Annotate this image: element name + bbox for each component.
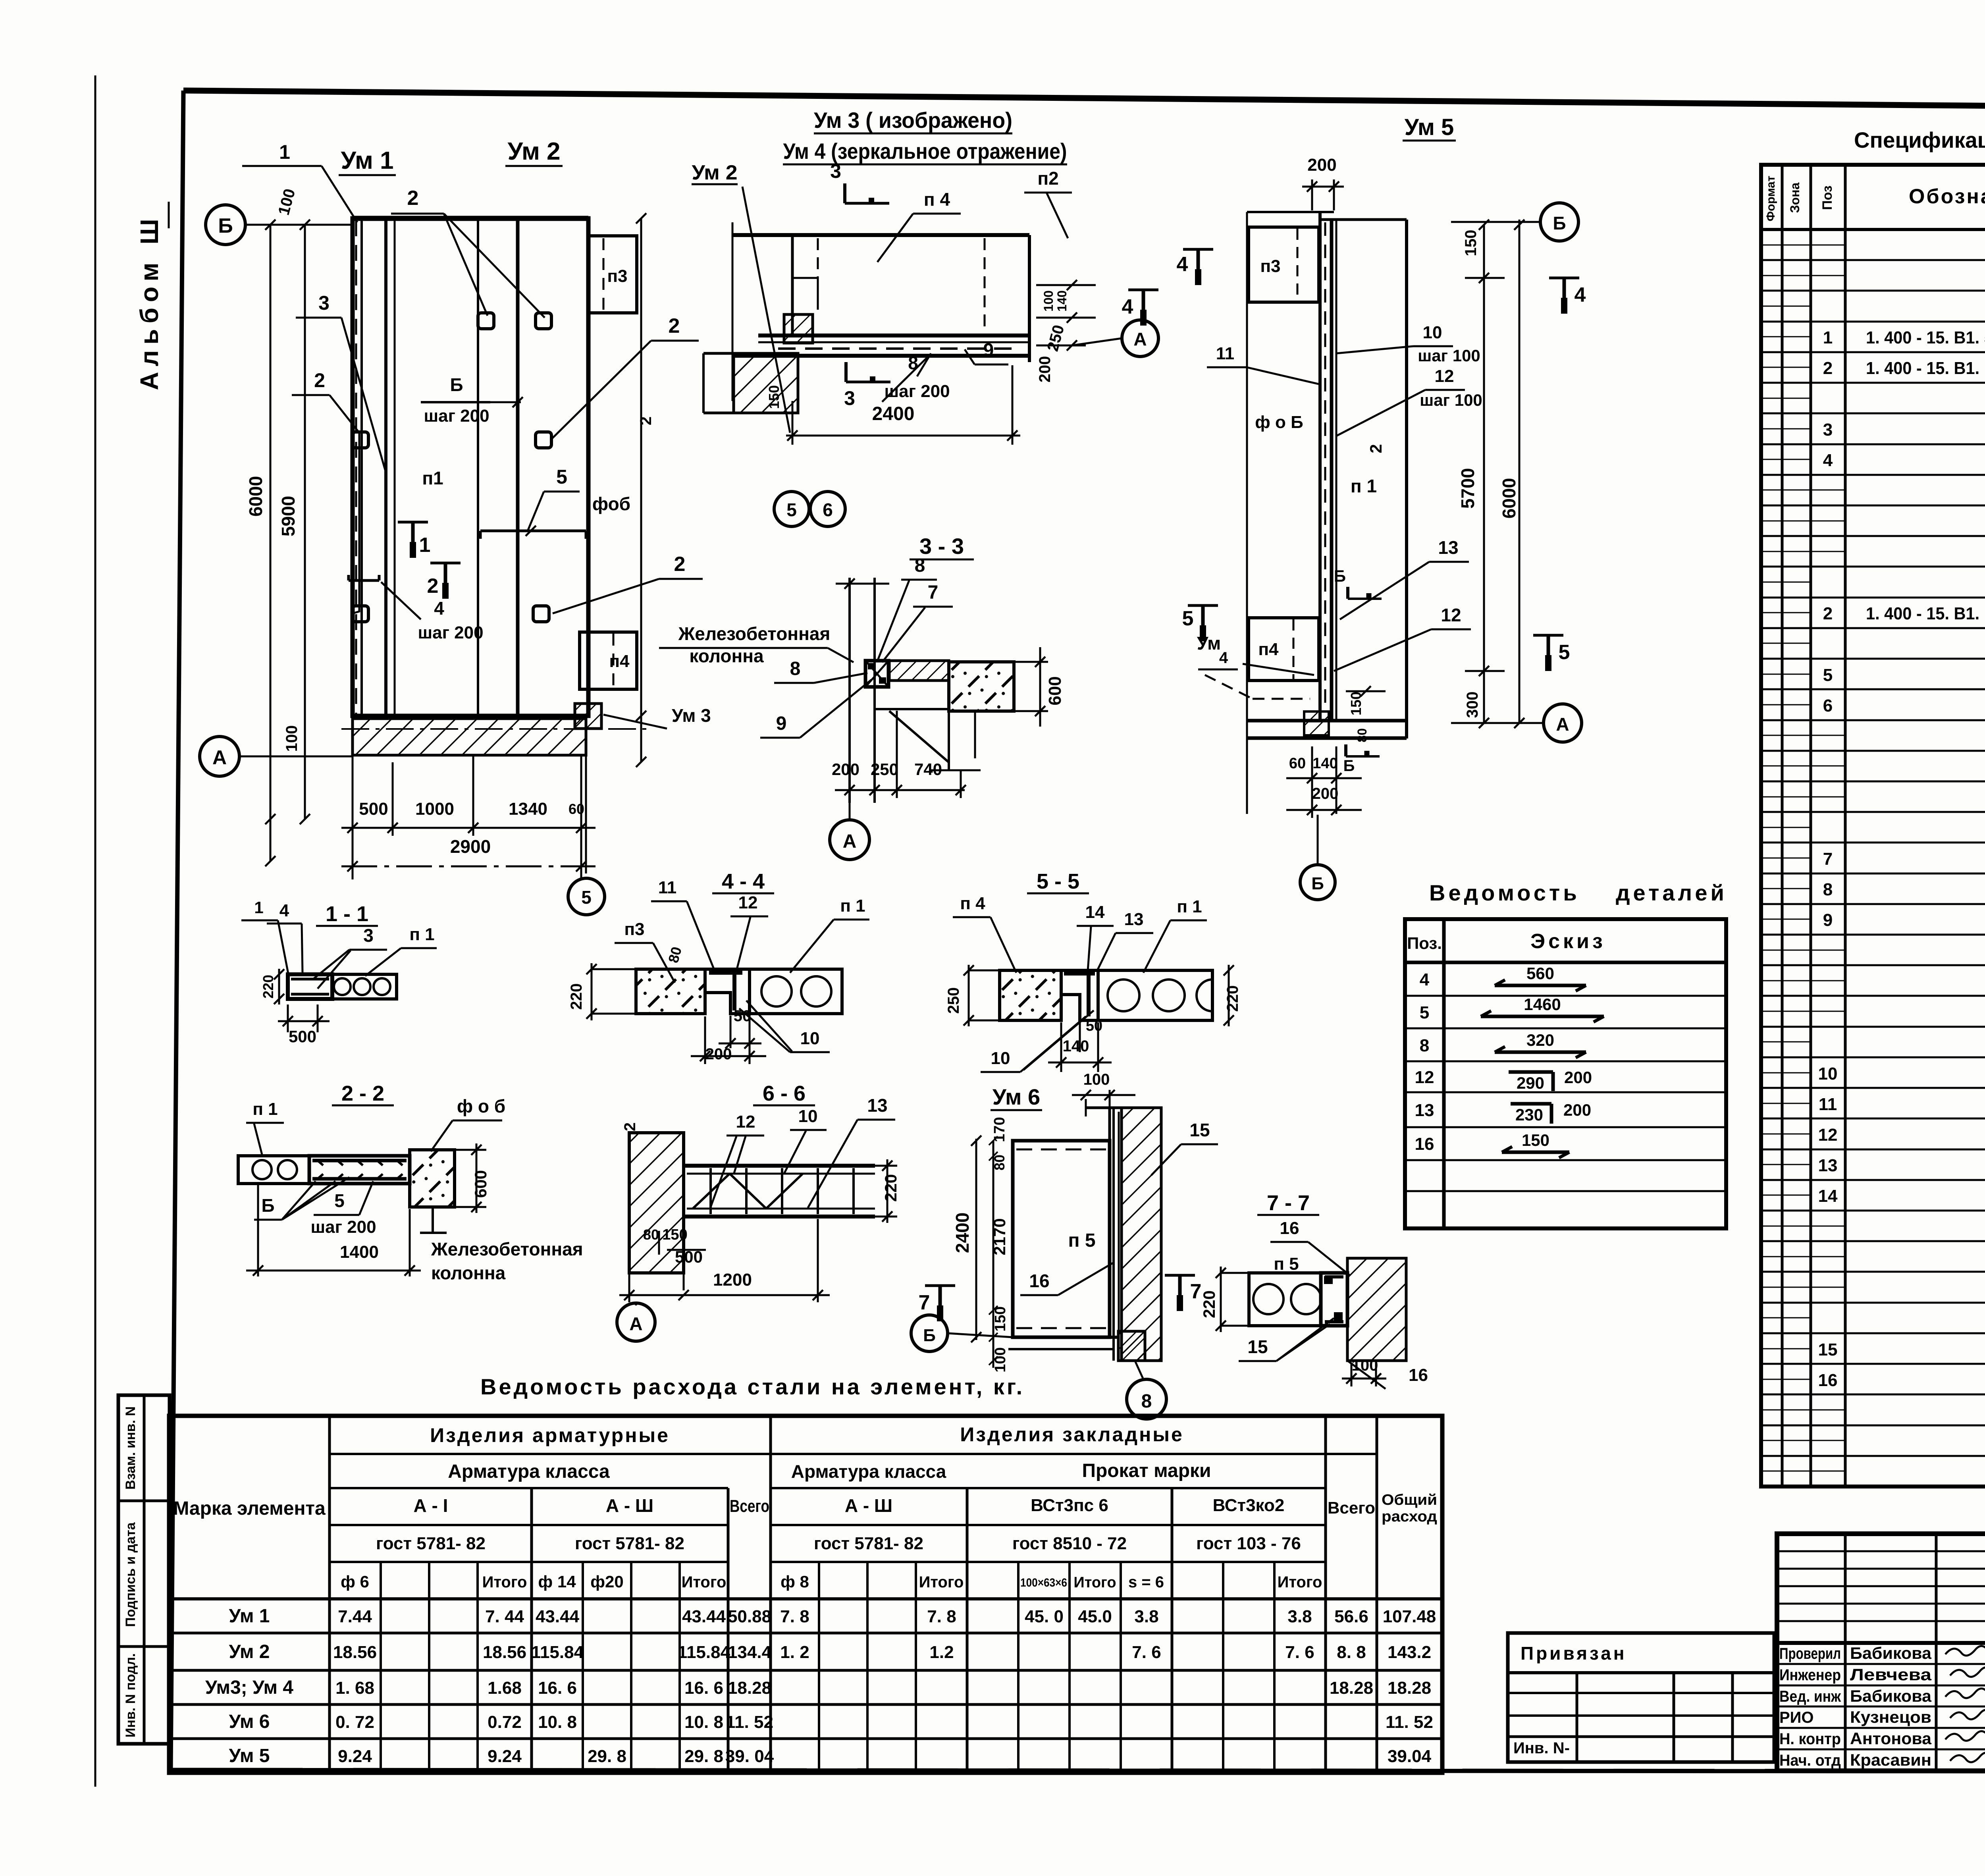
svg-text:10. 8: 10. 8 — [538, 1712, 577, 1732]
svg-text:п 1: п 1 — [1351, 476, 1377, 496]
svg-text:Инв. N подл.: Инв. N подл. — [123, 1653, 138, 1737]
svg-text:п2: п2 — [1037, 168, 1058, 189]
svg-text:5: 5 — [1420, 1003, 1429, 1022]
svg-text:Прокат марки: Прокат марки — [1082, 1460, 1211, 1481]
svg-text:43.44: 43.44 — [536, 1607, 580, 1626]
svg-text:10: 10 — [800, 1029, 820, 1048]
svg-text:Ум 5: Ум 5 — [229, 1745, 270, 1766]
svg-text:1: 1 — [1823, 328, 1833, 347]
svg-text:Итого: Итого — [1073, 1574, 1116, 1591]
svg-text:ф 14: ф 14 — [538, 1572, 576, 1591]
svg-text:Арматура класса: Арматура класса — [448, 1461, 610, 1482]
svg-text:Ум 5: Ум 5 — [1405, 114, 1454, 140]
svg-text:18.28: 18.28 — [728, 1678, 771, 1698]
svg-text:4: 4 — [1575, 283, 1586, 307]
svg-text:250: 250 — [945, 987, 962, 1014]
svg-text:2 - 2: 2 - 2 — [341, 1082, 384, 1105]
svg-text:6000: 6000 — [1499, 478, 1519, 519]
svg-text:РИО: РИО — [1779, 1709, 1814, 1726]
svg-text:140: 140 — [1312, 755, 1337, 772]
svg-text:45. 0: 45. 0 — [1025, 1607, 1064, 1626]
svg-text:11: 11 — [1819, 1095, 1837, 1114]
svg-text:200: 200 — [1036, 356, 1054, 383]
svg-text:9.24: 9.24 — [488, 1747, 522, 1766]
svg-text:140: 140 — [1063, 1037, 1089, 1055]
svg-text:11. 52: 11. 52 — [726, 1712, 773, 1732]
svg-text:2: 2 — [1823, 359, 1833, 378]
svg-text:15: 15 — [1247, 1336, 1268, 1357]
svg-text:Подпись и дата: Подпись и дата — [123, 1522, 138, 1627]
svg-text:29. 8: 29. 8 — [588, 1747, 626, 1766]
svg-text:4: 4 — [279, 901, 289, 920]
svg-text:Б: Б — [1311, 874, 1324, 893]
svg-text:107.48: 107.48 — [1383, 1607, 1436, 1626]
svg-text:Эскиз: Эскиз — [1530, 930, 1606, 953]
svg-text:560: 560 — [1526, 964, 1554, 983]
svg-text:деталей: деталей — [1616, 880, 1727, 905]
svg-text:10: 10 — [991, 1049, 1010, 1068]
svg-text:5: 5 — [1182, 607, 1194, 630]
svg-text:Б: Б — [923, 1326, 936, 1345]
svg-text:15: 15 — [1189, 1120, 1210, 1140]
svg-text:3: 3 — [318, 292, 330, 314]
svg-text:500: 500 — [359, 799, 388, 819]
svg-text:Ум 2: Ум 2 — [507, 138, 560, 165]
svg-text:13: 13 — [1415, 1101, 1434, 1120]
svg-text:2: 2 — [1366, 444, 1385, 453]
svg-text:4: 4 — [1420, 970, 1430, 989]
svg-text:45.0: 45.0 — [1078, 1607, 1112, 1626]
svg-text:колонна: колонна — [431, 1263, 506, 1283]
svg-text:Железобетонная: Железобетонная — [678, 623, 831, 644]
svg-text:16. 6: 16. 6 — [684, 1678, 723, 1698]
svg-text:60: 60 — [1289, 755, 1306, 772]
svg-text:п 1: п 1 — [409, 925, 434, 944]
svg-text:п1: п1 — [422, 468, 443, 488]
svg-text:Вед. инж: Вед. инж — [1779, 1688, 1841, 1705]
svg-text:14: 14 — [1085, 902, 1105, 922]
svg-text:Проверил: Проверил — [1779, 1645, 1841, 1662]
svg-text:5 - 5: 5 - 5 — [1037, 870, 1079, 893]
svg-text:8: 8 — [1420, 1036, 1429, 1055]
svg-text:3: 3 — [1823, 420, 1833, 440]
svg-text:740: 740 — [914, 760, 942, 779]
svg-text:Зона: Зона — [1788, 182, 1802, 213]
svg-text:7. 6: 7. 6 — [1132, 1643, 1161, 1662]
svg-text:9: 9 — [983, 340, 994, 361]
svg-text:п 5: п 5 — [1068, 1230, 1095, 1251]
svg-text:Альбом Ш: Альбом Ш — [135, 213, 164, 390]
svg-text:А - I: А - I — [414, 1495, 448, 1516]
svg-text:Инв. N-: Инв. N- — [1513, 1739, 1570, 1757]
svg-text:9: 9 — [1823, 910, 1833, 930]
svg-text:12: 12 — [738, 893, 758, 912]
svg-text:220: 220 — [1200, 1290, 1218, 1318]
svg-text:60: 60 — [569, 801, 584, 817]
svg-text:1200: 1200 — [713, 1270, 752, 1290]
svg-text:шаг 100: шаг 100 — [1418, 346, 1480, 365]
svg-text:ф 8: ф 8 — [781, 1572, 809, 1591]
svg-text:7: 7 — [928, 582, 939, 603]
svg-text:п3: п3 — [624, 920, 644, 939]
svg-text:5900: 5900 — [278, 496, 299, 536]
svg-text:600: 600 — [471, 1170, 490, 1198]
svg-text:100×63×6: 100×63×6 — [1020, 1576, 1067, 1589]
svg-text:7 - 7: 7 - 7 — [1267, 1191, 1310, 1215]
svg-text:3: 3 — [830, 160, 841, 182]
svg-text:29. 8: 29. 8 — [684, 1747, 723, 1766]
svg-text:Ум 4 (зеркальное отражение): Ум 4 (зеркальное отражение) — [783, 139, 1067, 164]
svg-text:1.2: 1.2 — [929, 1643, 954, 1662]
svg-text:16: 16 — [1280, 1219, 1299, 1238]
svg-text:Ведомость расхода стали: Ведомость расхода стали на элемент, кг. — [480, 1374, 1025, 1399]
svg-text:Бабикова: Бабикова — [1850, 1644, 1932, 1662]
svg-text:170: 170 — [991, 1117, 1008, 1142]
svg-text:10: 10 — [1423, 323, 1442, 342]
svg-text:1000: 1000 — [415, 799, 454, 819]
svg-text:7: 7 — [919, 1291, 930, 1314]
svg-text:Б: Б — [261, 1195, 274, 1216]
svg-text:320: 320 — [1526, 1031, 1554, 1049]
svg-text:п4: п4 — [609, 652, 630, 671]
svg-text:18.56: 18.56 — [333, 1643, 377, 1662]
svg-text:Итого: Итого — [682, 1573, 727, 1591]
svg-text:Б: Б — [450, 374, 463, 395]
svg-text:Итого: Итого — [919, 1573, 964, 1591]
svg-text:Всего: Всего — [730, 1496, 769, 1516]
svg-text:11: 11 — [658, 878, 677, 897]
svg-text:1 - 1: 1 - 1 — [326, 902, 368, 926]
svg-text:12: 12 — [1435, 366, 1454, 386]
svg-text:43.44: 43.44 — [682, 1607, 726, 1626]
svg-text:1400: 1400 — [340, 1242, 379, 1262]
svg-text:5: 5 — [556, 466, 567, 488]
svg-text:15: 15 — [1818, 1340, 1838, 1359]
svg-text:Ум 6: Ум 6 — [992, 1084, 1040, 1109]
svg-text:100: 100 — [1352, 1357, 1378, 1374]
svg-text:2: 2 — [674, 553, 686, 576]
svg-text:А: А — [212, 746, 227, 769]
svg-text:Ум 2: Ум 2 — [229, 1641, 270, 1662]
svg-text:Ум 3: Ум 3 — [672, 705, 711, 726]
svg-text:6: 6 — [823, 499, 833, 520]
svg-text:18.28: 18.28 — [1388, 1678, 1431, 1698]
svg-text:ф о б: ф о б — [457, 1096, 505, 1116]
svg-text:Инженер: Инженер — [1779, 1666, 1841, 1684]
svg-text:3: 3 — [363, 925, 374, 946]
svg-text:13: 13 — [867, 1095, 887, 1116]
svg-text:12: 12 — [1415, 1068, 1434, 1087]
svg-text:7. 8: 7. 8 — [927, 1607, 956, 1626]
svg-text:5: 5 — [1823, 665, 1833, 685]
svg-text:8: 8 — [1141, 1391, 1152, 1412]
svg-text:11. 52: 11. 52 — [1386, 1712, 1433, 1732]
svg-text:Б: Б — [1553, 213, 1566, 233]
svg-text:п 4: п 4 — [960, 894, 985, 913]
svg-text:3.8: 3.8 — [1134, 1607, 1158, 1626]
svg-text:14: 14 — [1818, 1186, 1838, 1206]
svg-text:Взам. инв. N: Взам. инв. N — [123, 1406, 138, 1490]
svg-text:А: А — [1133, 329, 1147, 349]
svg-text:А: А — [629, 1313, 642, 1334]
svg-text:115.84: 115.84 — [531, 1643, 584, 1662]
svg-text:Арматура класса: Арматура класса — [791, 1461, 946, 1482]
svg-text:Ум 3 ( изображено): Ум 3 ( изображено) — [814, 108, 1012, 133]
svg-text:Обозначение: Обозначение — [1909, 185, 1985, 208]
svg-text:100: 100 — [283, 725, 301, 752]
svg-text:Спецификация монолитных учас: Спецификация монолитных участков — [1854, 127, 1985, 152]
svg-text:5: 5 — [334, 1190, 345, 1211]
svg-text:16: 16 — [1415, 1134, 1434, 1154]
svg-text:200: 200 — [832, 760, 860, 779]
svg-text:гост 5781- 82: гост 5781- 82 — [376, 1534, 486, 1553]
svg-text:Б: Б — [218, 214, 233, 237]
svg-text:3.8: 3.8 — [1287, 1607, 1312, 1626]
svg-text:п 4: п 4 — [924, 189, 950, 210]
svg-text:Ум 1: Ум 1 — [229, 1606, 270, 1627]
svg-text:2400: 2400 — [952, 1213, 973, 1253]
svg-text:8: 8 — [790, 658, 801, 679]
svg-text:4: 4 — [1823, 451, 1833, 470]
svg-text:2: 2 — [621, 1122, 639, 1131]
svg-text:16: 16 — [1409, 1365, 1428, 1385]
svg-text:16: 16 — [1818, 1371, 1838, 1390]
svg-text:Ум 1: Ум 1 — [341, 147, 393, 174]
svg-text:18.28: 18.28 — [1330, 1678, 1373, 1698]
svg-text:6 - 6: 6 - 6 — [763, 1082, 806, 1105]
svg-text:Ум: Ум — [1197, 633, 1221, 654]
svg-text:3 - 3: 3 - 3 — [919, 534, 964, 559]
svg-text:Поз.: Поз. — [1407, 934, 1442, 952]
svg-text:Б: Б — [1334, 567, 1346, 585]
svg-text:4: 4 — [434, 598, 444, 619]
svg-text:150: 150 — [766, 385, 782, 409]
svg-text:п4: п4 — [1258, 640, 1279, 659]
svg-text:7.44: 7.44 — [338, 1607, 372, 1626]
svg-text:200: 200 — [1312, 785, 1339, 802]
svg-text:п 1: п 1 — [1177, 897, 1202, 916]
svg-text:5: 5 — [786, 499, 797, 520]
svg-text:фоб: фоб — [592, 494, 630, 514]
svg-text:56.6: 56.6 — [1334, 1607, 1368, 1626]
svg-text:гост 5781- 82: гост 5781- 82 — [814, 1534, 923, 1553]
svg-text:Нач. отд: Нач. отд — [1779, 1752, 1841, 1769]
svg-text:16: 16 — [1029, 1271, 1049, 1291]
svg-text:140: 140 — [1055, 290, 1069, 311]
svg-text:50.88: 50.88 — [728, 1607, 771, 1626]
svg-text:8: 8 — [915, 555, 925, 576]
svg-text:ф20: ф20 — [590, 1572, 623, 1591]
svg-text:2: 2 — [1823, 604, 1833, 623]
svg-text:1. 400 - 15. В1. 540 - 01: 1. 400 - 15. В1. 540 - 01 — [1866, 328, 1985, 347]
svg-text:8: 8 — [1823, 880, 1833, 899]
svg-text:Марка элемента: Марка элемента — [173, 1498, 326, 1519]
svg-text:гост 8510 - 72: гост 8510 - 72 — [1012, 1534, 1127, 1553]
svg-text:1: 1 — [279, 141, 290, 163]
svg-text:расход: расход — [1382, 1508, 1437, 1525]
svg-text:А - Ш: А - Ш — [845, 1495, 892, 1516]
svg-text:13: 13 — [1124, 910, 1144, 929]
svg-text:7. 8: 7. 8 — [780, 1607, 809, 1626]
svg-text:6: 6 — [1823, 696, 1833, 715]
svg-text:5: 5 — [581, 887, 592, 908]
svg-text:Б: Б — [1343, 757, 1355, 775]
svg-text:шаг 200: шаг 200 — [418, 623, 483, 642]
svg-text:7: 7 — [1823, 849, 1833, 869]
svg-text:13: 13 — [1818, 1156, 1838, 1175]
svg-text:143.2: 143.2 — [1388, 1643, 1431, 1662]
svg-text:4: 4 — [1219, 649, 1228, 667]
svg-text:134.4: 134.4 — [728, 1643, 772, 1662]
svg-text:115.84: 115.84 — [678, 1643, 730, 1662]
svg-text:220: 220 — [568, 983, 585, 1010]
svg-text:2: 2 — [427, 575, 439, 598]
svg-text:п 5: п 5 — [1274, 1254, 1299, 1274]
svg-text:п 1: п 1 — [252, 1099, 278, 1119]
svg-text:2: 2 — [407, 187, 419, 210]
svg-text:А - Ш: А - Ш — [606, 1495, 653, 1516]
svg-text:250: 250 — [871, 760, 898, 779]
svg-text:100: 100 — [1041, 290, 1056, 311]
svg-text:Формат: Формат — [1764, 175, 1777, 221]
svg-text:гост 103 - 76: гост 103 - 76 — [1196, 1534, 1301, 1553]
svg-text:12: 12 — [736, 1112, 755, 1132]
svg-text:200: 200 — [705, 1045, 732, 1063]
svg-text:Антонова: Антонова — [1850, 1729, 1932, 1748]
svg-text:4: 4 — [1177, 253, 1188, 276]
svg-text:Общий: Общий — [1382, 1492, 1437, 1508]
svg-text:гост 5781- 82: гост 5781- 82 — [575, 1534, 684, 1553]
svg-text:12: 12 — [1818, 1125, 1838, 1145]
svg-text:1: 1 — [419, 534, 431, 557]
svg-text:Кузнецов: Кузнецов — [1850, 1708, 1931, 1726]
svg-text:300: 300 — [1464, 692, 1481, 718]
svg-text:ф 6: ф 6 — [341, 1572, 369, 1591]
svg-text:Всего: Всего — [1328, 1498, 1375, 1517]
svg-text:18.56: 18.56 — [483, 1643, 526, 1662]
svg-text:39.04: 39.04 — [1388, 1747, 1432, 1766]
svg-text:s = 6: s = 6 — [1128, 1573, 1164, 1591]
svg-text:1. 2: 1. 2 — [780, 1643, 809, 1662]
svg-text:1. 400 - 15. В1. 130 - 02: 1. 400 - 15. В1. 130 - 02 — [1866, 604, 1985, 623]
svg-text:500: 500 — [289, 1027, 316, 1046]
svg-text:Красавин: Красавин — [1850, 1751, 1931, 1769]
svg-text:ВСт3ко2: ВСт3ко2 — [1213, 1496, 1285, 1515]
svg-text:1. 400 - 15. В1. 130 - 02: 1. 400 - 15. В1. 130 - 02 — [1866, 359, 1985, 378]
svg-text:А: А — [843, 831, 857, 852]
svg-text:10: 10 — [798, 1107, 818, 1126]
svg-text:5700: 5700 — [1457, 468, 1478, 509]
svg-text:200: 200 — [1563, 1101, 1591, 1119]
svg-text:50: 50 — [1086, 1018, 1102, 1034]
svg-text:1: 1 — [254, 898, 263, 917]
svg-text:А: А — [1556, 714, 1569, 735]
svg-text:Левчева: Левчева — [1850, 1665, 1932, 1684]
svg-text:7. 6: 7. 6 — [1285, 1643, 1314, 1662]
svg-text:8. 8: 8. 8 — [1337, 1643, 1366, 1662]
svg-text:Ум3; Ум 4: Ум3; Ум 4 — [205, 1677, 293, 1698]
svg-text:200: 200 — [1307, 155, 1336, 175]
svg-text:Поз: Поз — [1820, 185, 1835, 210]
svg-text:220: 220 — [881, 1174, 900, 1202]
svg-text:Изделия закладные: Изделия закладные — [960, 1423, 1184, 1446]
svg-text:220: 220 — [1224, 985, 1241, 1012]
svg-text:80: 80 — [643, 1226, 659, 1243]
svg-text:0.72: 0.72 — [488, 1712, 522, 1732]
svg-text:шаг 200: шаг 200 — [424, 406, 489, 426]
svg-text:230: 230 — [1515, 1105, 1543, 1124]
svg-text:Ведомость: Ведомость — [1429, 880, 1580, 905]
svg-text:9: 9 — [776, 713, 787, 734]
svg-text:150: 150 — [992, 1306, 1009, 1331]
svg-text:Итого: Итого — [482, 1573, 527, 1591]
svg-text:2: 2 — [669, 314, 680, 337]
svg-text:9.24: 9.24 — [338, 1747, 372, 1766]
svg-text:150: 150 — [1462, 230, 1480, 256]
svg-text:600: 600 — [1045, 676, 1065, 705]
svg-text:Бабикова: Бабикова — [1850, 1687, 1932, 1705]
svg-text:80: 80 — [1355, 728, 1369, 742]
svg-text:1.68: 1.68 — [488, 1678, 522, 1698]
svg-text:11: 11 — [1216, 344, 1235, 363]
svg-text:Итого: Итого — [1278, 1573, 1322, 1591]
svg-text:290: 290 — [1517, 1074, 1544, 1092]
svg-text:7. 44: 7. 44 — [485, 1607, 524, 1626]
svg-text:шаг 200: шаг 200 — [310, 1217, 376, 1237]
svg-text:2: 2 — [314, 369, 325, 391]
svg-text:Н. контр: Н. контр — [1779, 1730, 1841, 1748]
svg-text:100: 100 — [1083, 1071, 1110, 1088]
svg-text:39. 04: 39. 04 — [725, 1747, 774, 1766]
svg-text:Ум 6: Ум 6 — [229, 1711, 270, 1732]
svg-text:п 1: п 1 — [840, 896, 865, 916]
svg-text:Железобетонная: Железобетонная — [431, 1239, 583, 1259]
svg-text:п3: п3 — [607, 266, 627, 286]
svg-text:Изделия арматурные: Изделия арматурные — [430, 1424, 670, 1446]
svg-text:ВСт3пс 6: ВСт3пс 6 — [1031, 1496, 1108, 1515]
svg-text:п3: п3 — [1260, 256, 1280, 276]
svg-text:1460: 1460 — [1524, 995, 1561, 1014]
svg-text:шаг 100: шаг 100 — [1420, 391, 1482, 409]
svg-text:1. 68: 1. 68 — [335, 1678, 374, 1698]
svg-text:2400: 2400 — [872, 403, 915, 424]
svg-text:3: 3 — [844, 387, 855, 409]
svg-text:2: 2 — [637, 416, 655, 425]
svg-text:Ум 2: Ум 2 — [692, 161, 738, 184]
svg-text:2900: 2900 — [450, 836, 491, 857]
svg-text:4 - 4: 4 - 4 — [722, 870, 765, 893]
svg-text:5: 5 — [1559, 641, 1570, 664]
svg-text:1340: 1340 — [509, 799, 547, 819]
svg-text:13: 13 — [1438, 537, 1458, 558]
svg-text:200: 200 — [1564, 1068, 1592, 1087]
svg-text:16. 6: 16. 6 — [538, 1678, 577, 1698]
svg-text:ф о Б: ф о Б — [1255, 413, 1303, 432]
svg-text:10. 8: 10. 8 — [684, 1712, 723, 1732]
svg-text:0. 72: 0. 72 — [335, 1712, 374, 1732]
svg-text:150: 150 — [1522, 1131, 1549, 1149]
svg-text:4: 4 — [1122, 295, 1133, 318]
svg-text:10: 10 — [1818, 1064, 1838, 1084]
svg-text:Привязан: Привязан — [1521, 1643, 1627, 1664]
svg-text:6000: 6000 — [245, 476, 266, 517]
svg-text:12: 12 — [1441, 605, 1461, 625]
